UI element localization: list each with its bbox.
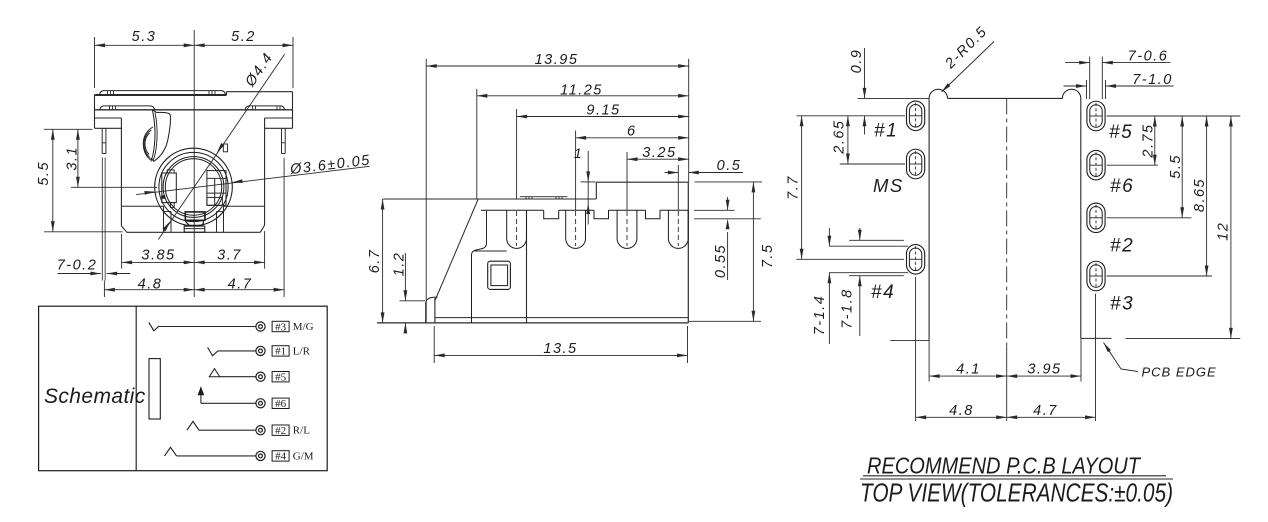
dim 2.75 <box>1154 116 1156 165</box>
svg-text:Ø3.6±0.05: Ø3.6±0.05 <box>288 152 371 178</box>
front view right mounting flange <box>265 117 293 119</box>
svg-text:6.7: 6.7 <box>367 249 383 274</box>
pin centerlines dashed <box>516 211 518 246</box>
front view bottom with chamfers <box>121 226 126 232</box>
dim 0.9 <box>858 97 930 99</box>
svg-text:RECOMMEND P.C.B LAYOUT: RECOMMEND P.C.B LAYOUT <box>867 453 1142 479</box>
svg-text:#4: #4 <box>871 282 895 303</box>
window on box <box>488 261 511 289</box>
front view top plate and shell outline <box>95 94 227 96</box>
dim 2.65 <box>847 116 849 164</box>
svg-text:11.25: 11.25 <box>560 82 603 98</box>
schematic pin row #4 <box>256 451 265 460</box>
svg-text:3.95: 3.95 <box>1027 361 1061 377</box>
svg-text:#3: #3 <box>1110 294 1134 315</box>
svg-text:#5: #5 <box>275 372 287 384</box>
raised back section <box>595 182 597 199</box>
svg-text:3.1: 3.1 <box>65 146 81 171</box>
left contact inside barrel <box>162 173 177 203</box>
svg-text:8.65: 8.65 <box>1192 178 1208 212</box>
front view inner shelf lines <box>121 205 163 207</box>
svg-text:#2: #2 <box>275 425 286 437</box>
svg-text:5.5: 5.5 <box>36 161 52 186</box>
svg-text:G/M: G/M <box>293 450 314 462</box>
svg-text:7-1.4: 7-1.4 <box>812 295 828 336</box>
dim 3.85 / 3.7 <box>121 234 123 269</box>
svg-text:Ø4.4: Ø4.4 <box>242 50 277 91</box>
svg-text:3.85: 3.85 <box>141 247 175 263</box>
dim 8.65 <box>1206 116 1208 276</box>
extension line below left pin <box>103 281 105 298</box>
svg-text:13.5: 13.5 <box>543 341 577 357</box>
svg-text:3.25: 3.25 <box>642 145 676 161</box>
svg-text:7.5: 7.5 <box>760 243 776 268</box>
svg-text:0.5: 0.5 <box>717 158 742 174</box>
dim 3.25 <box>626 152 628 210</box>
front view body side walls <box>120 118 122 226</box>
dim 4.1 / 3.95 <box>928 341 930 382</box>
right contact inside barrel <box>207 171 226 206</box>
dim 7-0.6 <box>1089 57 1091 100</box>
svg-text:0.9: 0.9 <box>849 49 865 74</box>
pad center extension lines <box>797 115 906 117</box>
dim 4.8 / 4.7 right view <box>915 277 917 421</box>
svg-text:9.15: 9.15 <box>586 103 620 119</box>
svg-text:5.3: 5.3 <box>132 29 157 45</box>
bottom lines <box>377 322 688 324</box>
pad #6 <box>1087 150 1105 180</box>
svg-text:#4: #4 <box>275 451 287 463</box>
svg-text:7-1.8: 7-1.8 <box>840 288 856 329</box>
dim 6 <box>575 131 577 211</box>
dim 11.25 <box>476 89 478 199</box>
dim 7-1.8 <box>859 228 861 240</box>
svg-text:MS: MS <box>873 175 904 196</box>
dim 0.5 <box>677 165 679 210</box>
svg-text:7-0.6: 7-0.6 <box>1128 49 1169 65</box>
centerline front view <box>193 30 195 297</box>
svg-text:2-R0.5: 2-R0.5 <box>942 23 991 72</box>
dim 12 <box>1230 116 1232 338</box>
svg-text:#1: #1 <box>874 121 898 142</box>
pad #3 <box>1087 261 1105 291</box>
pins side view <box>507 210 527 248</box>
svg-text:13.95: 13.95 <box>535 52 579 68</box>
plate top line with left extension <box>383 198 596 200</box>
pad #1 <box>907 101 925 131</box>
dim 5.5 <box>44 128 93 130</box>
svg-text:7.7: 7.7 <box>786 175 802 200</box>
dim 6.7 <box>382 199 384 323</box>
pad #4 <box>907 245 925 274</box>
svg-text:#6: #6 <box>275 398 287 410</box>
bottom tab of barrel <box>185 212 205 220</box>
dim 4.8 / 4.7 front <box>104 289 194 291</box>
svg-text:4.1: 4.1 <box>956 361 981 377</box>
front view left stub leg <box>101 128 103 153</box>
svg-text:4.8: 4.8 <box>138 277 163 293</box>
schematic box <box>39 306 328 471</box>
front view left thin pin (7-0.2) <box>101 158 103 281</box>
plug rectangle <box>149 359 160 419</box>
svg-text:#5: #5 <box>1109 122 1133 143</box>
dim 5.3 / 5.2 <box>94 37 96 88</box>
dim 3.1 <box>71 186 157 188</box>
pad #5 <box>1087 101 1105 131</box>
pad #2 <box>1087 203 1105 233</box>
svg-text:#3: #3 <box>275 321 287 333</box>
svg-text:4.7: 4.7 <box>228 277 253 293</box>
svg-text:#1: #1 <box>275 346 286 358</box>
small detail top right of barrel <box>223 144 227 152</box>
svg-text:3.7: 3.7 <box>217 247 242 263</box>
schematic pin row #3 <box>256 322 265 331</box>
pcb layout outline top edge with R0.5 bumps <box>929 89 947 98</box>
svg-text:12: 12 <box>1216 222 1232 241</box>
extension line right lower <box>283 158 285 297</box>
#4 slot extension lines <box>849 239 904 241</box>
dim 7.7 <box>801 116 803 259</box>
pcb outline right edge <box>1080 98 1082 338</box>
svg-text:1: 1 <box>574 145 583 161</box>
svg-text:1.2: 1.2 <box>391 252 407 277</box>
svg-text:4.8: 4.8 <box>949 403 974 419</box>
leader diameter 3.6 <box>136 166 369 194</box>
svg-text:7-1.0: 7-1.0 <box>1132 72 1173 88</box>
dim 7-1.0 <box>1086 80 1088 99</box>
svg-text:PCB EDGE: PCB EDGE <box>1142 365 1217 380</box>
svg-text:2.75: 2.75 <box>1140 123 1156 158</box>
dim 9.15 <box>516 109 518 199</box>
svg-text:Schematic: Schematic <box>44 385 146 408</box>
svg-text:L/R: L/R <box>293 345 311 357</box>
schematic pin row #1 <box>256 346 265 355</box>
schematic row wires and contacts <box>149 322 160 331</box>
front view right stub leg <box>281 128 283 153</box>
pcb outline left edge <box>928 98 930 340</box>
schematic pin row #2 <box>256 426 265 435</box>
top strip on plate <box>520 196 568 198</box>
svg-text:6: 6 <box>627 123 637 139</box>
svg-text:R/L: R/L <box>293 425 310 437</box>
front channel and box <box>486 210 488 243</box>
svg-text:#2: #2 <box>1110 236 1134 257</box>
schematic pin row #5 <box>256 372 265 381</box>
schematic pin row #6 <box>256 399 265 408</box>
svg-text:0.55: 0.55 <box>713 244 729 278</box>
dim 13.5 <box>433 326 435 363</box>
front view left mounting flange <box>95 117 122 119</box>
dim 1.2 <box>400 300 426 302</box>
front view jack barrel circles <box>155 148 233 226</box>
pad MS <box>907 149 925 179</box>
dim 1 <box>581 181 596 183</box>
dim 5.5 right <box>1181 116 1183 218</box>
foot <box>425 303 427 323</box>
center dashed line <box>1006 98 1008 346</box>
svg-text:4.7: 4.7 <box>1033 403 1058 419</box>
plate bottom edge with notches <box>481 210 688 219</box>
2-R0.5 leader <box>942 42 995 93</box>
svg-text:2.65: 2.65 <box>832 119 848 154</box>
svg-text:5.5: 5.5 <box>1168 154 1184 179</box>
dim 7-1.4 <box>828 228 830 246</box>
svg-text:#6: #6 <box>1110 176 1134 197</box>
pcb edge label leader <box>1104 343 1139 372</box>
diagonal front slope <box>435 199 479 302</box>
svg-text:TOP VIEW(TOLERANCES:±0.05): TOP VIEW(TOLERANCES:±0.05) <box>860 478 1173 508</box>
dim 7.5 <box>695 181 763 183</box>
svg-text:7-0.2: 7-0.2 <box>57 258 98 274</box>
leader diameter 4.4 <box>158 54 284 239</box>
molded hook shape <box>151 110 171 161</box>
right edge <box>687 182 689 323</box>
dim 0.55 <box>694 209 735 211</box>
svg-text:M/G: M/G <box>293 321 314 333</box>
pcb edge bottom line <box>1081 337 1112 339</box>
svg-text:5.2: 5.2 <box>231 29 256 45</box>
dim 13.95 <box>425 59 427 323</box>
